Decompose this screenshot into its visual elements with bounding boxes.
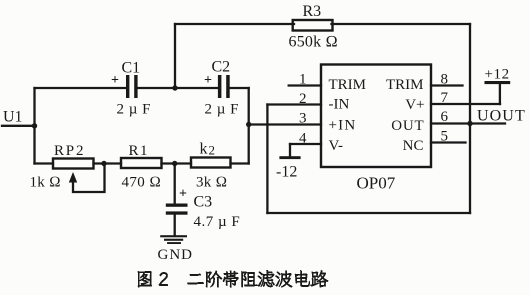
wire	[289, 84, 321, 86]
wire	[174, 164, 176, 236]
node wiper junction	[101, 161, 106, 166]
wire	[431, 103, 500, 105]
wire	[289, 144, 291, 156]
wire	[2, 125, 35, 127]
svg-text:UOUT: UOUT	[477, 108, 526, 125]
capacitor C1	[126, 75, 129, 98]
svg-text:V+: V+	[405, 97, 424, 113]
node R1-k2 junction	[172, 161, 177, 166]
svg-text:R1: R1	[129, 143, 150, 159]
wire	[431, 84, 463, 86]
svg-text:2 µ F: 2 µ F	[205, 102, 240, 118]
svg-text:TRIM: TRIM	[329, 77, 367, 93]
svg-text:8: 8	[441, 72, 449, 88]
wire	[175, 23, 470, 25]
svg-text:RP2: RP2	[54, 143, 85, 159]
wire	[174, 24, 176, 88]
ground	[160, 235, 187, 237]
resistor k2	[191, 158, 231, 168]
svg-text:4: 4	[299, 131, 307, 147]
svg-text:3k Ω: 3k Ω	[196, 175, 227, 191]
wire	[35, 87, 249, 89]
wire	[73, 164, 105, 193]
wire	[249, 123, 321, 125]
node OUT junction	[467, 121, 472, 126]
wire	[35, 162, 249, 164]
svg-text:1k Ω: 1k Ω	[30, 175, 61, 191]
op-amp U1 OP07 body	[321, 65, 431, 168]
svg-text:-12: -12	[276, 164, 297, 181]
svg-text:470 Ω: 470 Ω	[122, 175, 162, 191]
power -12 bar	[279, 156, 300, 159]
svg-text:+: +	[111, 73, 119, 88]
wire	[290, 143, 321, 145]
wire	[267, 212, 470, 214]
svg-text:OP07: OP07	[357, 174, 396, 193]
svg-text:NC: NC	[403, 138, 424, 154]
wire	[431, 141, 466, 143]
svg-text:C2: C2	[212, 59, 231, 76]
node +IN junction	[246, 122, 251, 127]
capacitor C3	[166, 204, 188, 207]
wire	[266, 105, 268, 214]
svg-text:2 µ F: 2 µ F	[117, 102, 152, 118]
svg-text:6: 6	[441, 109, 449, 125]
RP2 wiper arrow	[69, 172, 77, 183]
svg-text:2: 2	[299, 91, 307, 107]
svg-text:+: +	[179, 187, 187, 202]
wire	[431, 122, 505, 124]
svg-text:TRIM: TRIM	[386, 77, 424, 93]
caption: fig 2 second-order band-stop filter circuit	[138, 270, 329, 288]
resistor RP2	[53, 159, 94, 169]
svg-text:GND: GND	[158, 247, 194, 263]
svg-text:C3: C3	[194, 194, 213, 211]
svg-text:7: 7	[441, 90, 449, 106]
svg-text:+IN: +IN	[329, 118, 357, 134]
wire	[499, 84, 501, 104]
svg-text:+: +	[204, 73, 212, 88]
wire	[248, 88, 250, 164]
resistor R3	[293, 20, 333, 31]
capacitor C2	[218, 75, 222, 98]
svg-text:U1: U1	[3, 109, 23, 126]
svg-text:4.7 µ F: 4.7 µ F	[194, 214, 241, 230]
wire	[267, 103, 321, 105]
svg-text:C1: C1	[122, 60, 141, 77]
wire	[469, 24, 471, 213]
svg-text:5: 5	[441, 129, 449, 145]
svg-text:-IN: -IN	[329, 97, 350, 113]
svg-text:650k Ω: 650k Ω	[289, 34, 339, 51]
svg-text:k2: k2	[200, 141, 216, 158]
resistor R1	[121, 158, 162, 168]
svg-text:OUT: OUT	[391, 118, 424, 134]
svg-text:+12: +12	[485, 67, 510, 83]
node U1 input junction	[32, 123, 37, 128]
node A (C1-C2 junction)	[172, 85, 177, 90]
svg-text:V-: V-	[329, 138, 343, 154]
wire	[33, 88, 35, 164]
svg-text:R3: R3	[303, 3, 322, 20]
power +12 bar	[485, 81, 511, 84]
svg-text:1: 1	[299, 72, 307, 88]
svg-text:3: 3	[299, 111, 307, 127]
